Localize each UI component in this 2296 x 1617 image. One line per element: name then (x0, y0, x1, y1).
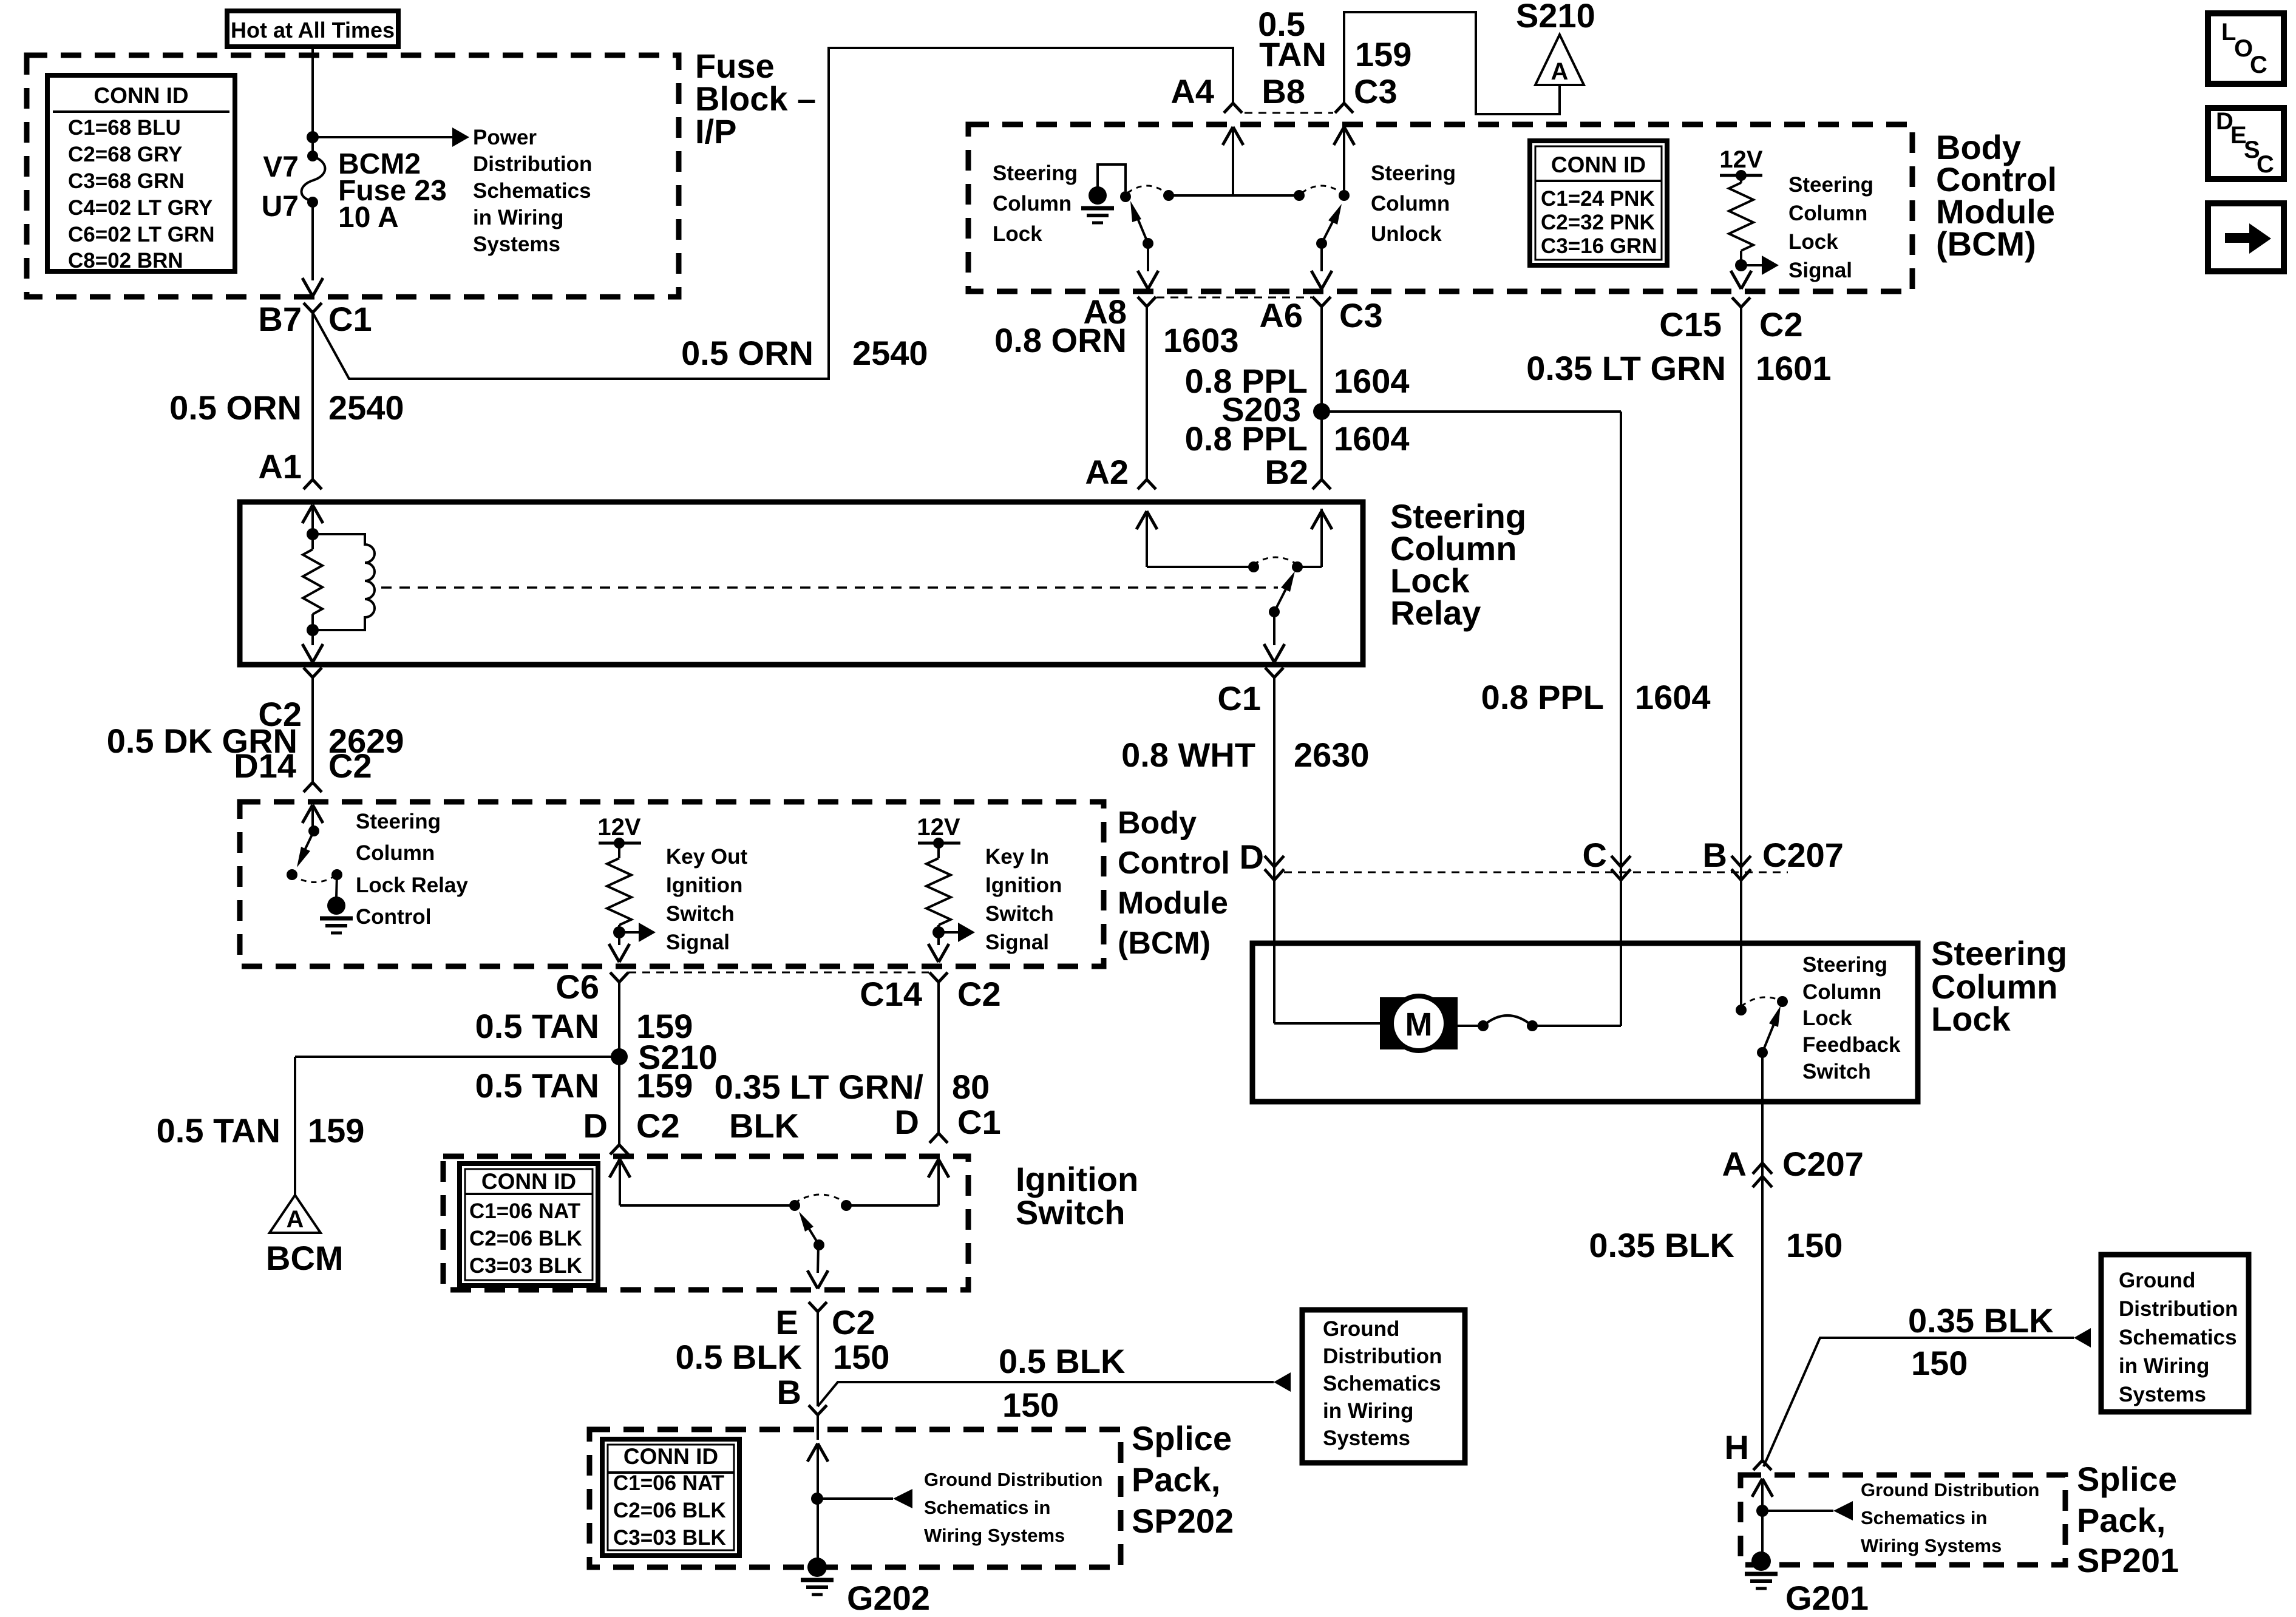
svg-text:1604: 1604 (1635, 678, 1711, 716)
svg-text:150: 150 (1911, 1344, 1968, 1382)
svg-text:1603: 1603 (1163, 321, 1239, 359)
svg-text:SP202: SP202 (1132, 1502, 1234, 1540)
svg-text:B8: B8 (1262, 72, 1305, 110)
svg-text:A: A (1722, 1145, 1747, 1183)
svg-text:E: E (776, 1303, 798, 1341)
svg-text:Column: Column (1371, 192, 1450, 215)
svg-text:Lock Relay: Lock Relay (356, 873, 468, 897)
svg-text:Ground Distribution: Ground Distribution (1861, 1479, 2039, 1500)
svg-text:Ground: Ground (1323, 1317, 1399, 1341)
svg-text:150: 150 (1002, 1386, 1059, 1424)
svg-text:M: M (1405, 1006, 1433, 1043)
svg-text:0.5 BLK: 0.5 BLK (676, 1338, 803, 1376)
svg-text:C1: C1 (1217, 679, 1261, 717)
svg-text:0.8 PPL: 0.8 PPL (1481, 678, 1604, 716)
svg-text:Systems: Systems (473, 232, 560, 256)
svg-text:Switch: Switch (666, 902, 735, 926)
svg-text:Ground Distribution: Ground Distribution (924, 1469, 1102, 1490)
svg-text:in Wiring: in Wiring (1323, 1399, 1413, 1423)
svg-text:Lock: Lock (1802, 1006, 1852, 1030)
svg-text:Distribution: Distribution (2119, 1297, 2238, 1321)
svg-text:SP201: SP201 (2077, 1541, 2179, 1579)
svg-text:C2: C2 (957, 975, 1001, 1013)
svg-text:0.35 LT GRN/: 0.35 LT GRN/ (715, 1068, 924, 1106)
svg-text:C3: C3 (1339, 296, 1383, 334)
svg-text:C: C (1583, 836, 1607, 874)
svg-text:Key In: Key In (985, 845, 1049, 869)
svg-text:Ignition: Ignition (985, 873, 1062, 897)
svg-text:Switch: Switch (1802, 1060, 1871, 1083)
svg-text:BCM: BCM (266, 1239, 344, 1277)
svg-text:2540: 2540 (328, 388, 404, 427)
svg-text:1601: 1601 (1756, 349, 1832, 387)
svg-text:Steering: Steering (1371, 161, 1456, 185)
svg-text:12V: 12V (597, 814, 640, 841)
svg-text:C207: C207 (1762, 836, 1844, 874)
svg-text:0.5 TAN: 0.5 TAN (475, 1007, 599, 1045)
svg-text:Column: Column (1802, 980, 1881, 1004)
svg-text:150: 150 (1786, 1226, 1843, 1264)
svg-text:Unlock: Unlock (1371, 222, 1442, 246)
svg-text:Feedback: Feedback (1802, 1033, 1901, 1057)
svg-text:CONN ID: CONN ID (481, 1169, 576, 1194)
svg-text:Distribution: Distribution (1323, 1344, 1442, 1368)
svg-text:A6: A6 (1259, 296, 1303, 334)
svg-text:C: C (2257, 151, 2274, 178)
svg-text:C14: C14 (860, 975, 922, 1013)
svg-text:D14: D14 (234, 747, 296, 785)
svg-text:Control: Control (1118, 846, 1230, 881)
svg-text:0.35 BLK: 0.35 BLK (1589, 1226, 1734, 1264)
svg-text:0.5 ORN: 0.5 ORN (169, 388, 302, 427)
svg-text:C: C (2250, 52, 2267, 78)
svg-text:G201: G201 (1785, 1579, 1869, 1617)
svg-text:C3=03 BLK: C3=03 BLK (469, 1254, 582, 1278)
svg-text:C1: C1 (328, 300, 372, 338)
svg-text:B2: B2 (1265, 453, 1308, 491)
svg-text:C2=32 PNK: C2=32 PNK (1541, 211, 1655, 234)
svg-text:C2=06 BLK: C2=06 BLK (469, 1227, 582, 1250)
svg-text:80: 80 (952, 1068, 990, 1106)
svg-text:159: 159 (1355, 35, 1411, 73)
svg-text:159: 159 (308, 1111, 364, 1150)
svg-text:V7: V7 (263, 151, 299, 183)
svg-text:Steering: Steering (1788, 173, 1873, 197)
svg-text:Wiring Systems: Wiring Systems (924, 1525, 1065, 1546)
svg-text:Module: Module (1118, 886, 1228, 921)
svg-text:CONN ID: CONN ID (93, 83, 188, 108)
svg-text:0.35 LT GRN: 0.35 LT GRN (1526, 349, 1726, 387)
svg-text:Schematics in: Schematics in (924, 1497, 1050, 1518)
svg-text:C2=68 GRY: C2=68 GRY (68, 143, 182, 166)
svg-text:C6=02 LT GRN: C6=02 LT GRN (68, 223, 215, 246)
svg-text:150: 150 (833, 1338, 889, 1376)
svg-text:H: H (1725, 1428, 1749, 1466)
svg-text:Relay: Relay (1390, 594, 1481, 632)
svg-text:CONN ID: CONN ID (1551, 152, 1646, 177)
svg-text:C15: C15 (1659, 305, 1722, 344)
svg-text:Steering: Steering (1802, 953, 1887, 977)
svg-text:Power: Power (473, 126, 537, 149)
svg-text:Switch: Switch (1016, 1193, 1125, 1232)
svg-text:Signal: Signal (666, 931, 730, 954)
svg-text:C2: C2 (832, 1303, 875, 1341)
svg-text:Wiring Systems: Wiring Systems (1861, 1535, 2002, 1556)
svg-text:Schematics in: Schematics in (1861, 1507, 1987, 1528)
svg-text:0.8 PPL: 0.8 PPL (1185, 419, 1308, 458)
svg-text:A2: A2 (1085, 453, 1129, 491)
svg-text:C3=16 GRN: C3=16 GRN (1541, 234, 1657, 258)
svg-text:C1=24 PNK: C1=24 PNK (1541, 187, 1655, 211)
svg-text:10 A: 10 A (338, 202, 399, 234)
svg-text:C3=03 BLK: C3=03 BLK (613, 1526, 726, 1550)
svg-text:S210: S210 (1516, 0, 1595, 35)
svg-text:1604: 1604 (1334, 419, 1410, 458)
svg-text:0.5 TAN: 0.5 TAN (157, 1111, 280, 1150)
svg-text:Ground: Ground (2119, 1269, 2195, 1292)
svg-text:Steering: Steering (993, 161, 1078, 185)
svg-text:12V: 12V (917, 814, 960, 841)
svg-text:Signal: Signal (1788, 259, 1852, 282)
svg-text:U7: U7 (262, 191, 299, 223)
svg-text:2540: 2540 (852, 334, 928, 372)
svg-text:0.35 BLK: 0.35 BLK (1908, 1301, 2054, 1340)
svg-text:0.8 WHT: 0.8 WHT (1121, 736, 1255, 774)
svg-text:Column: Column (356, 841, 435, 865)
svg-text:Control: Control (356, 905, 431, 929)
svg-text:C4=02 LT GRY: C4=02 LT GRY (68, 196, 212, 220)
svg-text:(BCM): (BCM) (1936, 225, 2036, 263)
svg-text:I/P: I/P (695, 112, 736, 151)
svg-text:D: D (1240, 838, 1264, 876)
svg-text:TAN: TAN (1259, 35, 1326, 73)
svg-text:D: D (895, 1103, 919, 1141)
svg-text:C1=06 NAT: C1=06 NAT (613, 1471, 724, 1495)
svg-text:Pack,: Pack, (2077, 1501, 2165, 1539)
svg-text:Hot at All Times: Hot at All Times (231, 18, 395, 42)
svg-text:C6: C6 (555, 968, 599, 1006)
svg-text:Steering: Steering (1931, 934, 2067, 972)
svg-text:Key Out: Key Out (666, 845, 748, 869)
svg-text:CONN ID: CONN ID (623, 1444, 718, 1469)
svg-text:Lock: Lock (1788, 230, 1838, 254)
svg-text:2630: 2630 (1294, 736, 1370, 774)
svg-text:Schematics: Schematics (2119, 1326, 2237, 1349)
svg-text:Distribution: Distribution (473, 152, 592, 176)
svg-text:Switch: Switch (985, 902, 1054, 926)
svg-text:Schematics: Schematics (1323, 1372, 1441, 1395)
svg-text:1604: 1604 (1334, 362, 1410, 400)
svg-text:B: B (777, 1373, 801, 1411)
svg-text:Ignition: Ignition (1016, 1160, 1138, 1198)
svg-text:C3=68 GRN: C3=68 GRN (68, 169, 185, 193)
svg-text:Signal: Signal (985, 931, 1049, 954)
svg-text:C2: C2 (1759, 305, 1803, 344)
svg-text:Schematics: Schematics (473, 179, 591, 203)
svg-text:C2: C2 (636, 1107, 680, 1145)
svg-text:C1: C1 (957, 1103, 1001, 1141)
svg-text:B7: B7 (258, 300, 302, 338)
svg-text:159: 159 (636, 1066, 693, 1105)
svg-text:(BCM): (BCM) (1118, 926, 1211, 961)
svg-text:Lock: Lock (1931, 1000, 2011, 1038)
svg-text:12V: 12V (1719, 146, 1762, 173)
svg-text:A1: A1 (258, 447, 302, 486)
svg-text:in Wiring: in Wiring (2119, 1354, 2209, 1378)
svg-text:Systems: Systems (1323, 1426, 1410, 1450)
svg-text:G202: G202 (847, 1579, 930, 1617)
svg-text:D: D (583, 1107, 608, 1145)
svg-text:Lock: Lock (993, 222, 1042, 246)
svg-text:0.5 TAN: 0.5 TAN (475, 1066, 599, 1105)
svg-text:Body: Body (1118, 805, 1197, 841)
svg-text:C1=06 NAT: C1=06 NAT (469, 1199, 580, 1223)
svg-text:C207: C207 (1782, 1145, 1864, 1183)
svg-text:0.8 ORN: 0.8 ORN (994, 321, 1127, 359)
svg-text:BLK: BLK (729, 1107, 799, 1145)
svg-text:C1=68 BLU: C1=68 BLU (68, 116, 181, 140)
svg-text:C3: C3 (1354, 72, 1398, 110)
svg-text:Column: Column (1788, 202, 1867, 225)
svg-text:Ignition: Ignition (666, 873, 742, 897)
svg-text:C2=06 BLK: C2=06 BLK (613, 1499, 726, 1522)
svg-text:0.5 ORN: 0.5 ORN (681, 334, 813, 372)
svg-text:in Wiring: in Wiring (473, 206, 563, 229)
svg-text:Systems: Systems (2119, 1383, 2206, 1406)
svg-text:Steering: Steering (356, 810, 441, 833)
svg-text:B: B (1703, 836, 1727, 874)
svg-text:A: A (287, 1206, 304, 1233)
svg-text:Column: Column (993, 192, 1072, 215)
svg-text:0.5 BLK: 0.5 BLK (999, 1342, 1126, 1380)
svg-text:A4: A4 (1170, 72, 1214, 110)
svg-text:C8=02 BRN: C8=02 BRN (68, 249, 183, 273)
svg-text:C2: C2 (328, 747, 372, 785)
svg-text:Splice: Splice (1132, 1419, 1232, 1457)
svg-text:A: A (1551, 58, 1569, 85)
svg-text:Pack,: Pack, (1132, 1460, 1220, 1499)
svg-text:Splice: Splice (2077, 1460, 2177, 1498)
